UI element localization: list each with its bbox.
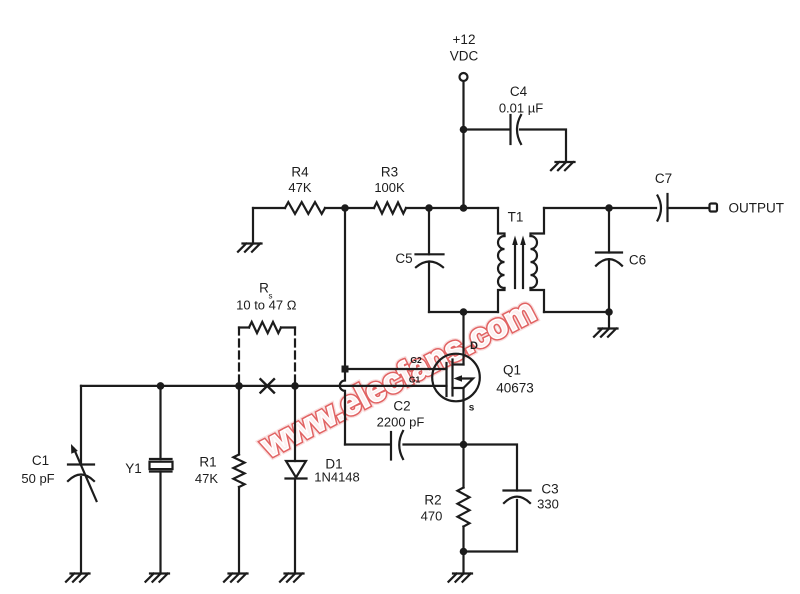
resistor Rs [239, 326, 249, 328]
ground (R2) [449, 574, 473, 582]
transistor Q1 40673 [432, 354, 480, 402]
transformer T1 core arrows [514, 244, 516, 288]
wire Rs dashed left [238, 328, 240, 386]
X break symbol [261, 379, 275, 392]
crystal Y1 [159, 386, 161, 459]
svg-text:R3: R3 [381, 165, 398, 180]
svg-text:0.01 µF: 0.01 µF [499, 101, 543, 116]
wire hop over G1 [340, 373, 345, 445]
capacitor C7 [658, 196, 662, 221]
svg-text:G2: G2 [410, 355, 422, 365]
wire G1 / crystal line [81, 385, 447, 387]
wire secondary bottom [544, 311, 609, 313]
resistor R3 [374, 202, 406, 213]
terminal OUTPUT [710, 204, 718, 212]
svg-text:2200 pF: 2200 pF [377, 415, 425, 430]
transformer T1 primary [498, 208, 505, 236]
ground (C6) [594, 329, 618, 337]
wire primary bottom rail [429, 311, 498, 313]
svg-text:VDC: VDC [450, 49, 479, 64]
node R2 bottom [460, 548, 468, 556]
ground (D1) [280, 574, 304, 582]
capacitor C2 [345, 443, 390, 445]
svg-text:C4: C4 [510, 84, 528, 99]
svg-text:330: 330 [537, 497, 559, 512]
wire R4 left to ground [252, 208, 254, 244]
node Y1 [157, 382, 165, 390]
ground (C1) [66, 574, 90, 582]
svg-text:R4: R4 [291, 165, 309, 180]
svg-text:C5: C5 [395, 251, 412, 266]
svg-text:s: s [469, 403, 475, 414]
wire drain [462, 312, 464, 365]
svg-text:D: D [470, 340, 478, 352]
ground (R1) [224, 574, 248, 582]
node G2 [342, 366, 349, 373]
wire top rail [253, 207, 498, 209]
+12 VDC terminal [460, 73, 468, 81]
svg-text:T1: T1 [508, 210, 524, 225]
ground (Y1) [146, 574, 170, 582]
svg-text:1N4148: 1N4148 [314, 470, 360, 485]
svg-text:G1: G1 [409, 375, 421, 385]
svg-text:C2: C2 [393, 399, 410, 414]
ground (C4) [551, 162, 575, 170]
wire secondary top [544, 207, 656, 209]
resistor R2 [462, 445, 464, 488]
svg-text:C7: C7 [655, 171, 672, 186]
node rail/C5 [425, 204, 433, 212]
svg-text:10 to 47 Ω: 10 to 47 Ω [236, 298, 297, 313]
svg-text:R1: R1 [199, 455, 216, 470]
svg-text:C6: C6 [629, 253, 646, 268]
capacitor C1 [80, 386, 82, 465]
ground (R4) [238, 244, 262, 252]
svg-text:40673: 40673 [496, 381, 534, 396]
node R1 [235, 382, 243, 390]
node D1 [291, 382, 299, 390]
node source [460, 441, 468, 449]
capacitor C6 [608, 208, 610, 253]
svg-text:47K: 47K [195, 471, 218, 486]
svg-text:100K: 100K [374, 180, 405, 195]
capacitor C3 [464, 445, 518, 491]
svg-text:50 pF: 50 pF [21, 471, 54, 486]
svg-text:47K: 47K [288, 180, 311, 195]
node C6 bottom [605, 308, 613, 316]
node +12/C4 junction [460, 126, 468, 134]
svg-text:470: 470 [421, 509, 443, 524]
resistor R4 [285, 202, 325, 214]
wire +12 vertical [462, 82, 464, 209]
node C6 top [605, 204, 613, 212]
transformer T1 secondary [531, 208, 545, 236]
diode D1 [294, 386, 296, 461]
svg-text:Q1: Q1 [503, 363, 521, 378]
wire G2 lead [345, 368, 447, 370]
svg-text:Y1: Y1 [125, 461, 142, 476]
wire to ground (C6) [608, 312, 610, 329]
svg-text:C3: C3 [541, 482, 558, 497]
svg-text:+12: +12 [453, 32, 476, 47]
wire C4 to ground [520, 130, 566, 163]
wire Rs dashed right [294, 328, 296, 386]
wire rail to G2 node [344, 208, 346, 366]
wire to C4 [464, 128, 510, 130]
resistor R1 [238, 386, 240, 455]
capacitor C5 [428, 208, 430, 254]
node rail/G2 [341, 204, 349, 212]
node drain [460, 308, 468, 316]
wire source [462, 388, 464, 445]
wire to ground (R2) [462, 552, 464, 574]
svg-text:OUTPUT: OUTPUT [729, 201, 785, 216]
watermark www.elecfans.com [254, 291, 541, 465]
svg-text:C1: C1 [32, 453, 49, 468]
capacitor C4 [509, 115, 511, 144]
svg-text:R2: R2 [424, 493, 441, 508]
node rail/+12 [460, 204, 468, 212]
